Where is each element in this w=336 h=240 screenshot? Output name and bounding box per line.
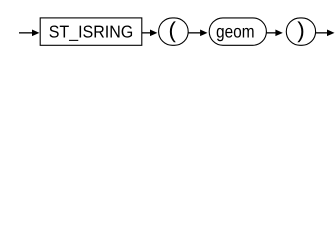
label geom (217, 28, 224, 41)
label ST_ISRING (49, 25, 58, 37)
terminal ) oval (286, 18, 315, 45)
end arrowhead (327, 30, 335, 37)
terminal ( oval (159, 18, 189, 45)
start arrowhead (32, 30, 39, 37)
arrowhead to geom (200, 30, 207, 37)
terminal geom oval (209, 18, 266, 45)
wire start line (19, 32, 34, 34)
wire geom to ) (266, 32, 276, 34)
wire ( to geom (188, 32, 201, 34)
label ( (170, 21, 176, 42)
wire box to ( (142, 32, 152, 34)
arrowhead to ) (275, 30, 282, 37)
box ST_ISRING (40, 18, 142, 45)
label ) (297, 21, 303, 42)
arrowhead to ( (150, 30, 157, 37)
wire ) to end (316, 32, 329, 34)
